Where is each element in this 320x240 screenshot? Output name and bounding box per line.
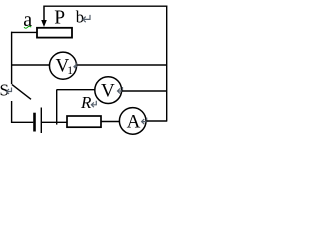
voltmeter V [95, 77, 122, 104]
wire: A to right rail [146, 120, 167, 122]
wire: rheostat left terminal to left rail [11, 31, 37, 33]
spellcheck squiggle under a [24, 26, 31, 28]
wire: V right lead [122, 90, 167, 92]
wire: right rail [166, 6, 168, 122]
wire: V1 right lead [77, 64, 166, 66]
svg-text:1: 1 [67, 65, 73, 77]
wire: battery to resistor R [42, 121, 67, 123]
svg-text:V: V [101, 81, 115, 102]
battery positive plate (long thin) [40, 108, 42, 134]
pilcrow mark after S [7, 88, 12, 95]
pilcrow mark at V1 right edge [74, 63, 77, 69]
svg-text:b: b [76, 8, 84, 27]
ammeter A [119, 108, 146, 135]
svg-text:P: P [54, 7, 65, 28]
voltmeter V1 [49, 52, 76, 79]
wire: left rail upper segment [11, 32, 13, 84]
wire: R to ammeter A [101, 121, 119, 123]
rheostat wiper arrow P [41, 6, 47, 28]
wire: left rail lower segment [11, 101, 13, 123]
wire: V1 left lead [11, 64, 50, 66]
resistor (rheostat body) R_P [37, 28, 72, 38]
battery negative plate (short thick) [33, 113, 36, 132]
wire: top rail from wiper to top-right corner [44, 5, 167, 7]
pilcrow mark after R [91, 101, 96, 107]
wire: V left lead [57, 89, 95, 91]
resistor R [67, 116, 101, 127]
pilcrow mark after b [83, 15, 90, 22]
pilcrow mark inside V [118, 87, 123, 94]
wire: junction tap up to voltmeter V lead [56, 90, 58, 125]
pilcrow mark inside A [142, 118, 147, 125]
svg-text:A: A [127, 111, 141, 132]
wire: bottom-left to battery [11, 121, 33, 123]
svg-text:R: R [80, 93, 92, 112]
switch S [12, 85, 31, 100]
